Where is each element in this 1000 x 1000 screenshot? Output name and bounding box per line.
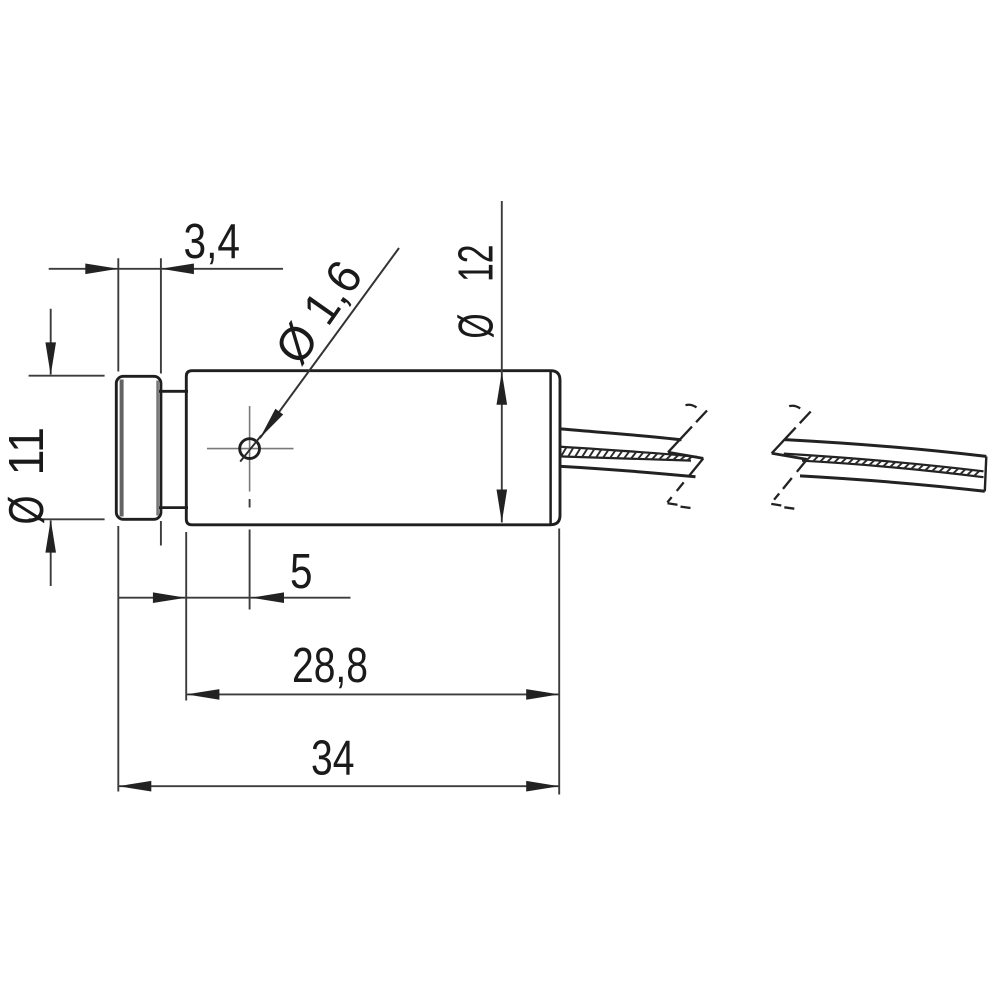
svg-text:34: 34 [311,732,355,786]
extension lines (bottom) [118,499,559,795]
5 dimension line [118,597,351,599]
cable 2 end face [985,456,987,491]
svg-text:12: 12 [450,245,504,283]
34 dimension line [118,785,559,787]
Ø11 upper extension tick [29,375,105,377]
extension stub from cap right edge [160,521,162,546]
3,4 right arrowhead [161,264,194,275]
extension line from body right edge [558,529,560,795]
28,8 right arrowhead [526,689,559,700]
adjustment hole (Ø1,6) with centerlines [207,406,294,492]
label Ø 1,6 [266,252,374,374]
leader arrowhead [260,409,283,439]
break 2 bottom corner dash [771,504,781,506]
cable 2 twist hatching [806,455,980,476]
break 1 top dash [686,405,697,408]
svg-text:11: 11 [0,427,54,476]
break 2 jog segment [772,453,807,459]
Ø11 lower extension tick [29,518,105,520]
leader line [260,248,399,438]
leader line for Ø1,6 [260,248,399,438]
cable 1 upper outline [559,429,682,440]
cable 1 lower outline [559,466,696,477]
dimension 3,4 (top) [49,215,283,374]
dimension Ø11 (vertical, left) [0,309,105,586]
break 1 bottom corner dash [668,503,678,505]
step top edge [159,390,188,393]
extension line from body left edge [185,532,187,701]
break 2 upper diagonal [772,412,811,454]
svg-text:3,4: 3,4 [184,215,241,269]
dimension 34 (bottom) [118,732,559,792]
3,4 dimension line [49,268,283,270]
hole vertical centerline [249,406,251,492]
svg-text:Ø: Ø [0,496,54,525]
break 2 top dash [789,406,800,409]
3,4 left extension line [117,258,119,371]
cable 1 twist band bottom line [559,456,691,460]
cable section 2 (after break, to right edge) [784,440,987,492]
break 2 lower diagonal [771,459,807,503]
step bottom edge [159,506,188,509]
cap left shading line [120,380,124,517]
5 right arrowhead [251,592,284,603]
Ø11 dimension line upper segment [50,309,52,375]
hole center extension line [249,530,251,610]
svg-text:Ø: Ø [450,314,504,339]
svg-text:28,8: 28,8 [292,639,368,693]
break 1 jog segment [668,452,703,458]
svg-text:5: 5 [290,545,313,599]
break 1 bottom end dash [681,507,691,508]
hole slash (leader continuation) [240,435,261,461]
break 1 lower diagonal [667,458,703,502]
cable 2 lower outline [800,476,985,491]
Ø12 dimension line [501,201,503,523]
cable 2 twist band bottom line [802,461,984,478]
dimension 28,8 [186,639,559,700]
cable section 1 (twisted pair leaving body) [559,429,697,477]
main cylinder body (Ø12) [186,371,560,525]
cap disc (front lens cap, Ø11) [116,376,161,519]
34 right arrowhead [526,781,559,792]
cable 1 twist band top line [559,447,697,457]
Ø12 upper arrowhead [497,372,508,405]
cable 2 twist band top line [784,454,984,472]
break symbol 1 [667,405,707,508]
body outline [186,371,560,525]
hole circle Ø1,6 [240,439,260,459]
28,8 left arrowhead [186,689,219,700]
Ø12 lower arrowhead [497,490,508,523]
28,8 dimension line [186,693,559,695]
34 left arrowhead [118,781,151,792]
step neck between cap and body [159,391,188,507]
dimension Ø12 (vertical, right) [450,201,508,523]
Ø11 lower arrowhead [45,520,56,553]
break 1 upper diagonal [668,411,707,453]
hole horizontal centerline [207,448,294,450]
hole center extension dash [249,499,251,508]
break symbol 2 [771,406,811,509]
cap outline [116,376,161,519]
Ø11 upper arrowhead [45,342,56,375]
3,4 left arrowhead [85,264,118,275]
5 left arrowhead [153,592,186,603]
dimension 5 [118,545,351,603]
cable 1 twist hatching [561,447,693,460]
cap right shading line [156,381,159,516]
extension line from cap left edge [117,526,119,792]
cable 2 upper outline [785,440,987,457]
break 2 bottom end dash [784,507,794,508]
body right tangent edge line [549,372,552,524]
3,4 right extension line [160,258,162,373]
Ø11 dimension line lower segment [50,521,52,587]
